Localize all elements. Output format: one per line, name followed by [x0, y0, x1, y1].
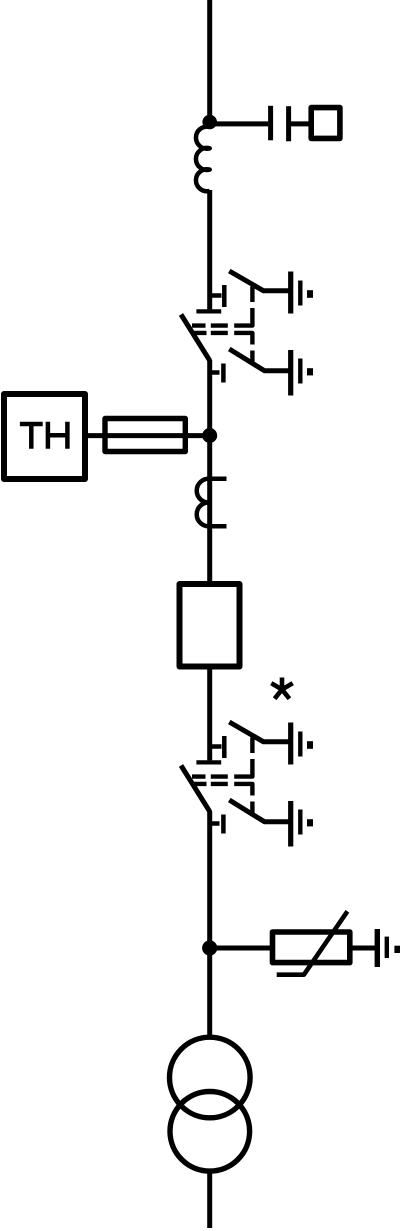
earthing switch ES2-up fixed contact — [210, 736, 225, 758]
surge arrester RV1 body — [273, 932, 350, 963]
fuse F1 (rect with line through) — [105, 419, 185, 452]
asterisk marker — [271, 678, 292, 699]
node B (junction at VT branch) — [202, 428, 217, 443]
ground symbol ES2-down — [288, 801, 293, 847]
wire: branch to coupling capacitor — [210, 121, 269, 126]
wire: breaker to DS2 — [207, 667, 212, 761]
inductor L1 (3 left bumps) — [196, 127, 210, 192]
linkage dashes row 2 (switch 2) — [192, 784, 252, 796]
three-position switch 2 — [181, 722, 313, 847]
transformer T1 winding 2 — [170, 1092, 250, 1172]
wire: transformer to bottom edge — [207, 1173, 212, 1228]
linkage vertical dash up (switch 2) — [250, 738, 254, 754]
earthing switch ES2-down fixed contact — [210, 815, 224, 834]
earthing switch ES-down fixed contact — [210, 364, 224, 383]
capacitor C1 plate 2 — [286, 106, 291, 141]
current transformer CT1 secondary (2 bumps + taps) — [197, 479, 227, 526]
linkage dashes row 1 (switch 2) — [192, 759, 252, 777]
disconnector fixed contact bar — [196, 309, 221, 313]
earthing switch ES-up fixed contact — [210, 285, 225, 307]
ground symbol ES-up — [288, 272, 293, 314]
linkage vertical dash down (switch 2) — [250, 802, 254, 813]
wire: node C to transformer — [207, 948, 212, 1035]
disconnector blade — [181, 315, 210, 361]
linkage vertical dash up — [250, 287, 254, 303]
wire: DS2 to node C — [207, 811, 212, 941]
wire: node C to arrester — [210, 946, 271, 951]
wire: node B through CT to breaker — [207, 430, 212, 583]
disconnector DS2 blade — [181, 766, 210, 812]
ground symbol ES-down — [288, 350, 293, 396]
wire: arrester to ground — [350, 946, 375, 951]
device box on capacitor branch — [311, 108, 340, 139]
linkage dashes row 2 — [192, 333, 252, 345]
ground symbol ES2-up — [288, 723, 293, 765]
surge arrester RV1 diagonal with tick — [277, 911, 348, 974]
capacitor C1 plate 1 — [268, 106, 273, 141]
linkage vertical dash down — [250, 351, 254, 362]
transformer T1 winding 1 — [170, 1037, 251, 1118]
ES2-down blade and wire — [229, 800, 290, 822]
circuit breaker box — [180, 584, 240, 667]
ES-up blade and wire — [229, 271, 290, 291]
linkage dashes row 1 — [192, 308, 252, 326]
wire: incoming line from top — [207, 0, 212, 122]
three-position switch 1 — [181, 271, 313, 396]
ES-down blade and wire — [229, 349, 290, 371]
wire: TH to node B — [87, 433, 210, 438]
disconnector DS2 fixed contact bar — [196, 760, 221, 764]
ES2-up blade and wire — [229, 722, 290, 742]
node A (junction, top) — [202, 115, 217, 130]
node C (junction at arrester branch) — [202, 940, 217, 955]
ground symbol at arrester — [375, 929, 380, 967]
wire: L1 to disconnector DS1 — [207, 190, 212, 309]
voltage transformer box TH — [4, 394, 85, 479]
wire: DS1 to node B — [207, 360, 212, 430]
label TH (drawn as strokes) — [20, 422, 43, 449]
wire: capacitor to device box — [291, 121, 309, 126]
